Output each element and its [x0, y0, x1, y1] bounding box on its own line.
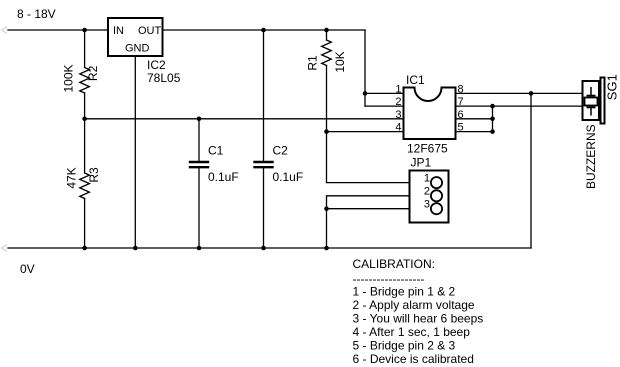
svg-text:10K: 10K	[333, 51, 347, 72]
calibration notes text block	[353, 257, 484, 366]
junction pin6 / tie	[490, 117, 495, 122]
svg-text:OUT: OUT	[138, 25, 162, 37]
wire IC2 OUT 5V rail	[163, 29, 366, 31]
svg-text:BUZZERNS: BUZZERNS	[584, 124, 598, 189]
resistor R3 zigzag	[80, 173, 90, 199]
svg-text:47K: 47K	[65, 167, 79, 188]
capacitor C1 plates	[189, 162, 209, 167]
wire JP1 pin3 stub	[327, 208, 410, 210]
wire C1 top	[198, 119, 200, 161]
JP1 pad 3	[431, 203, 442, 214]
wire R3 top drop	[84, 119, 86, 173]
wire C2 bottom	[263, 168, 265, 248]
wire 5V drop to pin2	[364, 30, 366, 106]
wire ground rail 0V	[8, 247, 531, 249]
junction divider tap R2-R3	[82, 117, 87, 122]
svg-text:2: 2	[424, 186, 430, 198]
junction R2 top / input rail	[82, 28, 87, 33]
svg-text:IN: IN	[113, 25, 124, 37]
junction JP1 pin3 / ground drop	[324, 206, 329, 211]
microcontroller IC1 body	[404, 88, 456, 140]
svg-text:0V: 0V	[20, 262, 35, 276]
svg-text:0.1uF: 0.1uF	[208, 170, 239, 184]
svg-text:2: 2	[395, 96, 401, 108]
wire pin7 to buzzer	[456, 105, 583, 107]
resistor R2 zigzag	[80, 68, 90, 94]
svg-text:8 - 18V: 8 - 18V	[17, 7, 56, 21]
junction C1 / ground rail	[197, 246, 202, 251]
buzzer SG1 sounder bar	[601, 78, 605, 124]
junction R1 top / 5V rail	[324, 28, 329, 33]
svg-text:6: 6	[458, 109, 464, 121]
wire pin1 stub	[365, 92, 404, 94]
wire pins 5-6-7 tie	[492, 106, 494, 132]
svg-text:3: 3	[395, 109, 401, 121]
svg-text:JP1: JP1	[411, 156, 432, 170]
svg-text:R3: R3	[87, 167, 101, 183]
junction C1 / divider rail	[197, 117, 202, 122]
svg-text:5: 5	[458, 122, 464, 134]
svg-text:GND: GND	[125, 43, 150, 55]
svg-text:IC2: IC2	[147, 58, 166, 72]
svg-text:5 - Bridge pin 2 & 3: 5 - Bridge pin 2 & 3	[353, 339, 456, 353]
svg-text:C1: C1	[208, 144, 224, 158]
capacitor C2 plates	[253, 162, 273, 167]
voltage regulator IC2 box	[108, 18, 163, 56]
svg-text:3: 3	[424, 199, 430, 211]
junction pin5 / tie	[490, 129, 495, 134]
node ground arrow (left edge, faint)	[2, 245, 7, 251]
junction pin1 / 5V drop	[363, 91, 368, 96]
svg-text:R2: R2	[86, 65, 100, 81]
wire top input rail 8-18V	[8, 29, 108, 31]
wire R3 bottom drop	[84, 199, 86, 249]
junction JP1 ground drop / ground rail	[324, 246, 329, 251]
wire R1 top drop	[326, 30, 328, 40]
wire pin5 stub	[456, 131, 493, 133]
junction pin4 / R1	[324, 129, 329, 134]
svg-text:8: 8	[458, 83, 464, 95]
svg-text:6 - Device is calibrated: 6 - Device is calibrated	[353, 352, 474, 366]
buzzer SG1 inner symbol	[585, 87, 598, 116]
junction C2 / ground rail	[261, 246, 266, 251]
wire pin2 stub	[365, 105, 404, 107]
JP1 pad 1	[431, 177, 442, 188]
svg-text:1: 1	[395, 83, 401, 95]
svg-text:12F675: 12F675	[407, 142, 448, 156]
svg-text:4: 4	[395, 122, 401, 134]
svg-text:CALIBRATION:: CALIBRATION:	[353, 257, 435, 271]
svg-text:1 - Bridge pin 1 & 2: 1 - Bridge pin 1 & 2	[353, 285, 456, 299]
wire pin8 to buzzer	[456, 92, 583, 94]
svg-text:IC1: IC1	[406, 73, 425, 87]
junction IC2 GND / ground rail	[133, 246, 138, 251]
wire IC2 GND drop	[134, 56, 136, 248]
wire pin8 drop to ground	[530, 93, 532, 248]
wire pin4 stub	[327, 131, 404, 133]
svg-text:78L05: 78L05	[147, 71, 181, 85]
wire C1 bottom	[198, 168, 200, 248]
junction pin8 / ground drop	[529, 91, 534, 96]
svg-text:R1: R1	[306, 55, 320, 71]
svg-text:7: 7	[458, 96, 464, 108]
wire pin6 stub	[456, 118, 493, 120]
svg-text:3 - You will hear 6 beeps: 3 - You will hear 6 beeps	[353, 312, 484, 326]
wire middle divider rail to pin3	[85, 118, 404, 120]
svg-text:4 - After 1 sec, 1 beep: 4 - After 1 sec, 1 beep	[353, 325, 471, 339]
node input arrow (left edge, faint)	[2, 27, 7, 33]
svg-text:2 - Apply alarm voltage: 2 - Apply alarm voltage	[353, 298, 475, 312]
svg-text:100K: 100K	[61, 64, 75, 92]
svg-text:1: 1	[424, 173, 430, 185]
wire JP1 pin2 to ground	[327, 196, 410, 248]
junction C2 / 5V rail	[261, 28, 266, 33]
wire R1 bottom to JP1 pin1	[327, 66, 410, 183]
wire C2 top	[263, 30, 265, 161]
jumper header JP1 box	[410, 171, 449, 223]
junction R3 / ground rail	[82, 246, 87, 251]
svg-text:0.1uF: 0.1uF	[273, 170, 304, 184]
resistor R1 zigzag	[322, 40, 332, 66]
svg-text:C2: C2	[273, 144, 289, 158]
wire R2 bottom drop	[84, 93, 86, 119]
wire R2 top drop	[84, 30, 86, 68]
buzzer SG1 body	[583, 81, 600, 120]
junction pin7 / tie	[490, 104, 495, 109]
svg-text:SG1: SG1	[605, 74, 620, 100]
JP1 pad 2	[431, 190, 442, 201]
